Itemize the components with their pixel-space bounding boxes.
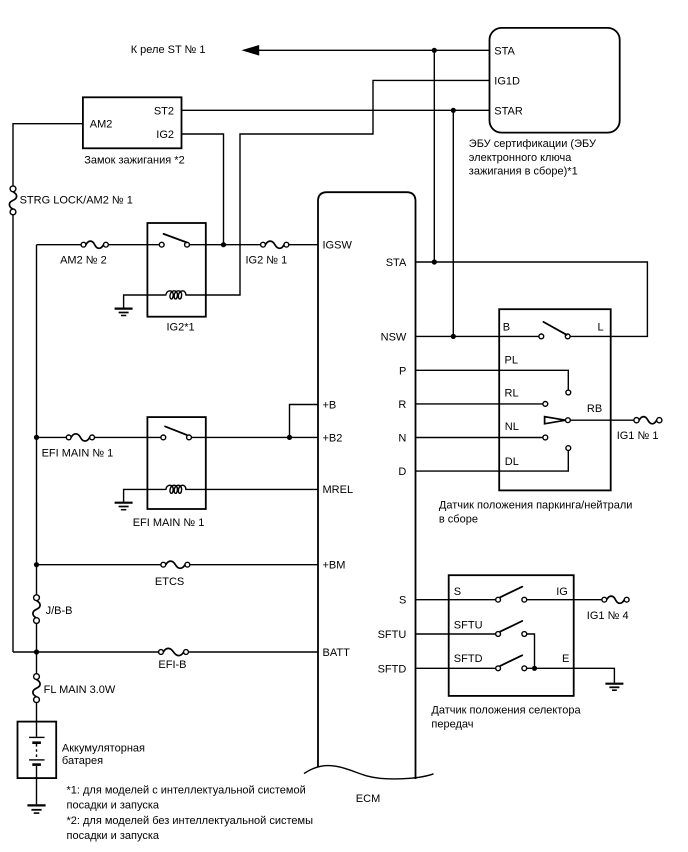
wire: FL MAIN link down into battery positive plate	[36, 703, 38, 737]
wire: IGSW line segment from battery bus to AM2 № 2 fuse	[37, 244, 82, 246]
svg-text:ETCS: ETCS	[155, 576, 184, 588]
contact DL	[566, 446, 571, 451]
relay EFI MAIN № 1	[133, 417, 206, 529]
svg-text:IG1 № 4: IG1 № 4	[587, 610, 629, 622]
fusible link J/B-B	[33, 595, 73, 624]
svg-text:FL MAIN 3.0W: FL MAIN 3.0W	[44, 684, 116, 696]
wire: ECM STA pin to park/neutral L contact (right, down, left)	[416, 262, 648, 336]
switch blade IG2*1	[164, 234, 187, 243]
fuse IG2 № 1	[246, 241, 289, 266]
contact RL	[543, 402, 548, 407]
battery plate long +	[29, 736, 44, 738]
ECM	[304, 192, 434, 805]
wire: battery bus (x=36.5) from IGSW line down to J/B-B link	[36, 245, 38, 595]
svg-text:AM2: AM2	[90, 119, 113, 131]
wire: +B branch up to ECM +B pin	[290, 405, 319, 438]
fuse IG1 № 1	[617, 417, 662, 443]
svg-text:E: E	[562, 653, 569, 665]
wire: IGSW line segment fuse to relay contact	[108, 244, 159, 246]
junction: STA line / down to ECM STA	[432, 48, 437, 53]
svg-text:RL: RL	[505, 388, 519, 400]
junction: IGSW line / IG2 branch	[221, 242, 226, 247]
wire: bus from J/B-B link down to EFI-B line	[36, 624, 38, 674]
contact circles EFI MAIN relay switch	[161, 435, 166, 440]
battery "Аккумуляторная батарея"	[18, 722, 146, 779]
wire: ECM SFTU pin to SFTU contact	[416, 633, 496, 635]
wire: S switch to IG1 № 4 fuse	[527, 599, 602, 601]
wire: ECM R pin to RL contact	[416, 403, 543, 405]
coil IG2*1	[166, 291, 186, 299]
junction: bus / EFI MAIN fuse line	[34, 435, 39, 440]
wire: IGSW line segment relay to IG2 № 1 fuse	[189, 244, 260, 246]
fuse IG1 № 4	[587, 596, 629, 622]
switch blade SFTU	[500, 621, 522, 632]
wire: +B2 / EFI MAIN № 1 fuse line from bus	[37, 436, 67, 438]
svg-text:IG1 № 1: IG1 № 1	[617, 430, 659, 442]
junction: +B branch on +B2 wire	[287, 435, 292, 440]
svg-text:STA: STA	[386, 257, 407, 269]
junction: bus / ETCS line	[34, 562, 39, 567]
svg-text:ST2: ST2	[154, 105, 174, 117]
svg-text:передач: передач	[431, 719, 473, 731]
svg-text:EFI MAIN № 1: EFI MAIN № 1	[42, 447, 114, 459]
junction: on ECM NSW wire	[451, 334, 456, 339]
wire: IG2 pin of ignition lock down to IGSW line	[182, 134, 224, 245]
ground: EFI MAIN relay coil	[115, 503, 133, 510]
wire: EFI-B fuse to ECM BATT pin	[188, 651, 318, 653]
wire: EFI MAIN relay coil left lead to ground	[124, 489, 166, 502]
svg-text:Датчик положения паркинга/нейт: Датчик положения паркинга/нейтрали	[439, 500, 633, 512]
battery dashed middle link	[36, 744, 38, 758]
wire: IGSW line segment fuse to ECM IGSW pin	[289, 244, 318, 246]
svg-text:MREL: MREL	[323, 484, 354, 496]
switch blade SFTD	[500, 655, 522, 666]
wire: vertical STAR line down to ECM NSW wire	[452, 110, 454, 336]
svg-text:IG2: IG2	[156, 129, 174, 141]
svg-text:ECM: ECM	[356, 793, 380, 805]
junction: SFTU/SFTD common node	[532, 666, 537, 671]
junction: STAR line / down to NSW	[451, 108, 456, 113]
junction: bus / EFI-B line	[34, 649, 39, 654]
park/neutral position switch assembly	[439, 309, 633, 525]
svg-text:NL: NL	[505, 421, 519, 433]
svg-text:SFTD: SFTD	[454, 653, 483, 665]
svg-text:P: P	[399, 365, 406, 377]
wire: +BM / ETCS line from bus to fuse	[37, 564, 161, 566]
svg-text:STRG LOCK/AM2 № 1: STRG LOCK/AM2 № 1	[20, 195, 133, 207]
contact circles of IG2*1 switch	[159, 242, 164, 247]
svg-text:DL: DL	[505, 456, 519, 468]
fusible link STRG LOCK/AM2 № 1	[9, 186, 132, 215]
coil EFI MAIN relay	[166, 485, 186, 493]
svg-text:RB: RB	[587, 403, 602, 415]
svg-text:IGSW: IGSW	[323, 240, 353, 252]
node: To ST relay arrow "К реле ST № 1"	[131, 44, 260, 56]
svg-text:EFI MAIN № 1: EFI MAIN № 1	[133, 517, 205, 529]
svg-text:L: L	[598, 322, 604, 334]
ground: IG2*1 relay coil	[115, 309, 133, 316]
wire: ETCS fuse to ECM +BM pin	[190, 564, 318, 566]
svg-text:К реле ST № 1: К реле ST № 1	[131, 44, 206, 56]
svg-text:IG1D: IG1D	[494, 75, 520, 87]
svg-text:IG2 № 1: IG2 № 1	[246, 254, 288, 266]
wire: SFTD switch output to E pin and ground	[527, 668, 615, 683]
svg-text:*1: для моделей с интеллектуал: *1: для моделей с интеллектуальной систе…	[67, 784, 306, 796]
wiper contact RB	[566, 418, 571, 423]
wire: MREL net (EFI MAIN relay coil right lead to ECM MREL pin)	[186, 488, 318, 490]
wire: IG2*1 coil left lead	[124, 295, 166, 308]
contact PL	[566, 390, 571, 395]
wire: ECM S pin to shift selector S contact	[416, 599, 496, 601]
svg-text:IG2*1: IG2*1	[167, 322, 195, 334]
wire: vertical from STA line down to ECM STA wire	[433, 50, 435, 262]
svg-text:батарея: батарея	[62, 755, 103, 767]
svg-text:S: S	[399, 595, 406, 607]
switch blade B-L	[543, 322, 566, 335]
contact circles SFTD switch	[496, 666, 501, 671]
battery plate long +	[29, 759, 44, 761]
wire: ECM D pin to DL contact	[416, 451, 569, 472]
svg-text:+B2: +B2	[323, 432, 343, 444]
svg-text:Датчик положения селектора: Датчик положения селектора	[431, 705, 581, 717]
wire: RB wiper to IG1 № 1 fuse	[570, 419, 634, 421]
contact circles SFTU switch	[496, 632, 501, 637]
svg-text:PL: PL	[505, 355, 518, 367]
wire: STA net (arrow to certification ECU STA pin)	[259, 49, 490, 51]
wire: ST2 to STAR (ignition lock ST2 pin to cert ECU STAR pin)	[182, 109, 490, 111]
ground: shift selector E	[605, 684, 623, 691]
svg-text:Аккумуляторная: Аккумуляторная	[62, 743, 145, 755]
wire: relay contact output to ECM +B2 pin	[191, 436, 318, 438]
junction: on ECM STA wire	[432, 259, 437, 264]
switch blade S	[500, 587, 522, 598]
wire: ECM N pin to NL contact	[416, 437, 543, 439]
relay IG2*1	[147, 223, 205, 334]
switch blade EFI MAIN relay	[165, 426, 187, 435]
battery plate short -	[32, 741, 41, 744]
svg-text:J/B-B: J/B-B	[46, 605, 73, 617]
fuse AM2 № 2	[60, 241, 108, 266]
ignition lock SW "Замок зажигания *2"	[83, 97, 185, 166]
svg-text:AM2 № 2: AM2 № 2	[60, 254, 107, 266]
wire: EFI-B line from left bus to fuse	[13, 651, 159, 653]
svg-text:R: R	[398, 399, 406, 411]
wire: ECM P pin to PL contact	[416, 370, 569, 390]
svg-text:SFTU: SFTU	[378, 629, 407, 641]
wire: IG1D net (cert ECU IG1D pin to IG2 relay coil)	[186, 80, 490, 295]
ground: battery	[27, 805, 45, 813]
contact circles B-L switch	[539, 334, 544, 339]
svg-text:Замок зажигания *2: Замок зажигания *2	[84, 155, 185, 167]
fuse EFI-B	[158, 648, 188, 671]
svg-text:STA: STA	[494, 45, 515, 57]
svg-text:EFI-B: EFI-B	[158, 659, 186, 671]
wire: SFTU switch output down to SFTD/E node	[527, 634, 535, 668]
wire: ECM NSW pin to B contact	[416, 335, 539, 337]
fusible link FL MAIN 3.0W	[33, 674, 116, 703]
svg-text:STAR: STAR	[494, 105, 523, 117]
svg-text:+B: +B	[323, 400, 337, 412]
svg-text:NSW: NSW	[381, 331, 407, 343]
svg-text:SFTD: SFTD	[378, 663, 407, 675]
fuse ETCS	[155, 561, 190, 588]
svg-text:зажигания в сборе)*1: зажигания в сборе)*1	[469, 166, 578, 178]
svg-text:S: S	[454, 586, 461, 598]
battery plate short -	[32, 763, 41, 766]
svg-text:SFTU: SFTU	[454, 619, 483, 631]
svg-text:BATT: BATT	[323, 647, 351, 659]
wire: AM2 pin of ignition lock to left bus (x=13) down to EFI-B line	[13, 124, 83, 186]
wire: left bus below STRG LOCK fuse down to EFI-B line	[12, 215, 14, 652]
certification ECU (smart key ECU)	[469, 28, 620, 178]
wire: ECM SFTD pin to SFTD contact	[416, 667, 496, 669]
rotary wiper wedge RB	[545, 417, 566, 424]
svg-text:посадки и запуска: посадки и запуска	[67, 800, 160, 812]
ECM torn-edge wave	[304, 766, 434, 779]
svg-text:посадки и запуска: посадки и запуска	[67, 830, 160, 842]
svg-text:ЭБУ сертификации (ЭБУ: ЭБУ сертификации (ЭБУ	[469, 138, 597, 150]
svg-text:B: B	[503, 322, 510, 334]
shift selector position sensor	[431, 575, 581, 730]
contact NL	[543, 435, 548, 440]
contact circles S switch	[496, 597, 501, 602]
svg-text:электронного ключа: электронного ключа	[469, 152, 572, 164]
svg-text:IG: IG	[556, 586, 568, 598]
svg-text:в сборе: в сборе	[439, 514, 478, 526]
wire: battery negative to ground	[36, 766, 38, 804]
svg-text:N: N	[398, 433, 406, 445]
svg-text:+BM: +BM	[323, 560, 346, 572]
svg-text:*2: для моделей без интеллекту: *2: для моделей без интеллектуальной сис…	[67, 815, 314, 827]
wire: fuse to EFI MAIN relay contact	[95, 436, 161, 438]
svg-text:D: D	[398, 466, 406, 478]
fuse EFI MAIN № 1	[42, 434, 114, 460]
